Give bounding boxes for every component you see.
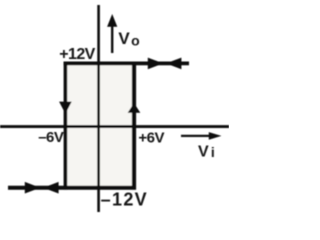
svg-text:Vo: Vo	[118, 29, 139, 48]
x-axis (Vi axis)	[0, 125, 229, 128]
left arrowhead on top segment	[166, 58, 181, 70]
up arrowhead on right edge	[128, 103, 141, 113]
svg-text:Vi: Vi	[198, 143, 215, 160]
left arrowhead on bottom segment	[43, 182, 58, 194]
Vo axis direction arrow	[111, 25, 113, 53]
svg-text:–12V: –12V	[101, 189, 148, 209]
top segment Vo=+12V	[64, 62, 189, 66]
right arrowhead on top segment	[148, 58, 163, 70]
svg-text:–6V: –6V	[38, 129, 64, 146]
svg-text:+12V: +12V	[59, 46, 95, 63]
svg-text:+6V: +6V	[138, 129, 164, 146]
hysteresis loop interior shading	[66, 64, 133, 187]
right edge at Vi=+6V	[132, 62, 136, 190]
right arrowhead on bottom segment	[25, 182, 40, 194]
left edge at Vi=-6V	[64, 62, 68, 190]
y-axis (Vo axis)	[97, 5, 100, 212]
bottom segment Vo=-12V	[8, 186, 136, 190]
down arrowhead on left edge	[59, 102, 72, 114]
Vi direction arrow	[181, 135, 211, 137]
